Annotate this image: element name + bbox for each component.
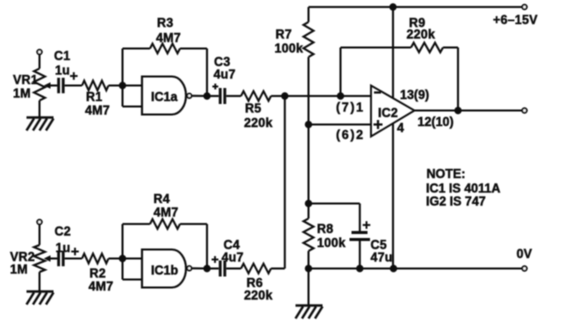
- svg-text:12(10): 12(10): [418, 115, 454, 129]
- svg-text:100k: 100k: [317, 236, 346, 250]
- svg-text:4M7: 4M7: [85, 104, 110, 118]
- svg-text:4u7: 4u7: [222, 251, 244, 265]
- svg-text:R3: R3: [157, 16, 173, 30]
- svg-text:1u: 1u: [56, 241, 71, 255]
- svg-text:C1: C1: [54, 49, 70, 63]
- svg-text:220k: 220k: [244, 116, 273, 130]
- svg-text:R7: R7: [276, 28, 292, 42]
- svg-text:1M: 1M: [10, 263, 28, 277]
- svg-text:4M7: 4M7: [156, 31, 181, 45]
- svg-text:R5: R5: [245, 102, 261, 116]
- svg-text:47u: 47u: [371, 251, 393, 265]
- svg-text:NOTE:: NOTE:: [427, 167, 466, 181]
- svg-text:(6)2: (6)2: [336, 128, 365, 142]
- svg-text:IG2 IS 747: IG2 IS 747: [426, 195, 486, 209]
- svg-text:4M7: 4M7: [154, 206, 179, 220]
- svg-text:13(9): 13(9): [400, 88, 429, 102]
- svg-text:R1: R1: [86, 90, 102, 104]
- svg-text:220k: 220k: [244, 289, 273, 303]
- svg-text:C2: C2: [55, 225, 71, 239]
- svg-text:IC1 IS 4011A: IC1 IS 4011A: [426, 182, 500, 196]
- svg-text:IC2: IC2: [378, 106, 398, 120]
- svg-text:+6–15V: +6–15V: [493, 13, 538, 27]
- svg-text:IC1b: IC1b: [151, 264, 178, 278]
- svg-text:R8: R8: [317, 222, 333, 236]
- svg-text:1M: 1M: [13, 87, 31, 101]
- svg-text:(7)1: (7)1: [336, 101, 365, 115]
- svg-text:4: 4: [397, 121, 404, 135]
- svg-text:0V: 0V: [517, 247, 533, 261]
- svg-text:R4: R4: [154, 192, 170, 206]
- svg-text:4u7: 4u7: [214, 68, 236, 82]
- svg-text:4M7: 4M7: [89, 280, 114, 294]
- svg-text:100k: 100k: [275, 42, 304, 56]
- svg-text:VR1: VR1: [13, 73, 38, 87]
- svg-text:1u: 1u: [55, 64, 70, 78]
- svg-text:R2: R2: [90, 267, 106, 281]
- svg-text:220k: 220k: [407, 28, 436, 42]
- svg-text:IC1a: IC1a: [151, 90, 178, 104]
